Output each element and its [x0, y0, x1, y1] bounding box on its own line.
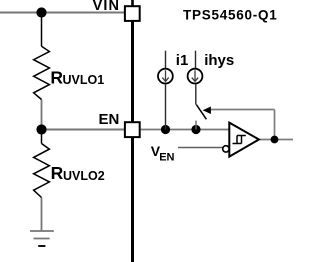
svg-text:R: R	[50, 68, 63, 88]
svg-text:UVLO2: UVLO2	[63, 169, 105, 183]
svg-text:ihys: ihys	[204, 52, 234, 69]
svg-text:i1: i1	[176, 52, 189, 69]
svg-text:UVLO1: UVLO1	[63, 73, 105, 87]
svg-text:EN: EN	[98, 111, 119, 128]
svg-text:TPS54560-Q1: TPS54560-Q1	[183, 8, 278, 23]
svg-text:EN: EN	[159, 152, 174, 164]
svg-text:R: R	[51, 163, 64, 183]
svg-text:VIN: VIN	[93, 0, 120, 14]
